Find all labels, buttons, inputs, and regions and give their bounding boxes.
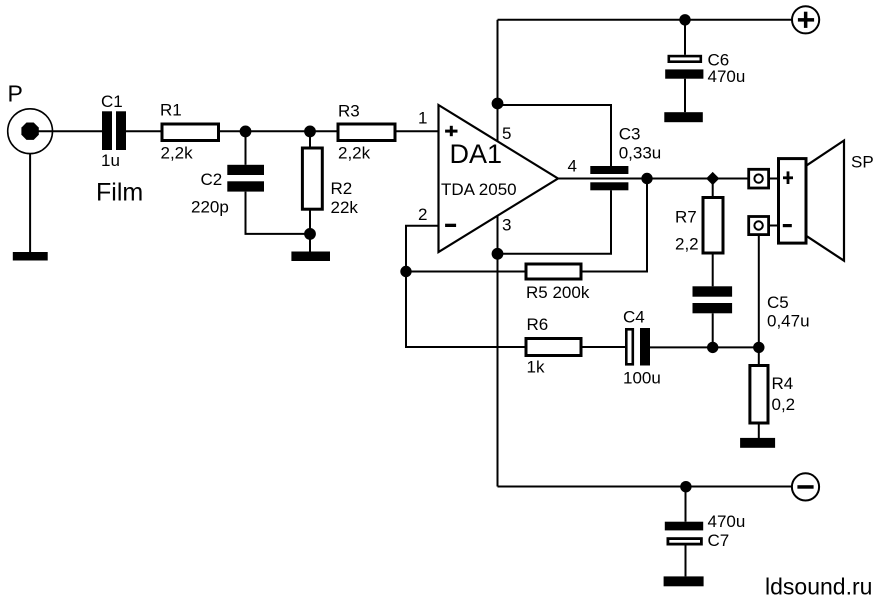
svg-text:3: 3 <box>502 216 511 235</box>
svg-text:2,2: 2,2 <box>675 235 699 254</box>
wire C3 bottom to pin 3 node <box>498 190 612 254</box>
wire pin 5 up to positive rail <box>497 20 499 141</box>
resistor R2 <box>302 148 322 209</box>
wire C2 down and right to R2 bottom node <box>246 192 311 234</box>
capacitor C6 <box>665 56 703 79</box>
svg-text:C3: C3 <box>619 125 641 144</box>
node rail / C7 <box>680 481 691 492</box>
node at R1/C2 <box>240 125 252 137</box>
wire rail down to C6 <box>684 20 686 55</box>
svg-text:R6: R6 <box>527 315 549 334</box>
svg-text:1u: 1u <box>101 151 120 170</box>
svg-text:2,2k: 2,2k <box>338 144 371 163</box>
svg-text:5: 5 <box>502 124 511 143</box>
wire output down to R5 <box>581 179 647 272</box>
wire positive rail <box>498 19 792 21</box>
wire C7 to ground <box>685 546 687 577</box>
svg-text:1: 1 <box>418 109 427 128</box>
capacitor C1 <box>102 111 126 150</box>
resistor R6 <box>526 339 581 356</box>
wire node down to C2 <box>245 131 247 165</box>
svg-text:100u: 100u <box>623 369 661 388</box>
wire P down to ground <box>29 154 31 253</box>
resistor R5 <box>526 264 581 279</box>
minus input marker <box>445 224 456 227</box>
wire negative rail <box>498 486 792 488</box>
wire R4 to ground <box>758 423 760 438</box>
ground (input) <box>13 252 48 261</box>
node C5/C4 <box>707 342 718 353</box>
wire C6 to ground <box>684 79 686 113</box>
wire R3 to pin 1 <box>395 130 439 132</box>
wire rail down to C7 <box>685 487 687 522</box>
node output <box>641 173 652 184</box>
wire pin 2 <box>406 226 439 272</box>
wire pin 3 down to negative rail <box>497 216 499 487</box>
speaker SP <box>779 141 845 261</box>
junction diamond at output <box>706 172 719 185</box>
svg-text:220p: 220p <box>191 198 229 217</box>
svg-text:R3: R3 <box>338 101 360 120</box>
wire C5 down to bottom node <box>712 313 714 347</box>
svg-text:0,33u: 0,33u <box>619 144 662 163</box>
svg-text:Film: Film <box>96 179 143 207</box>
svg-text:DA1: DA1 <box>450 139 503 169</box>
node rail / C6 <box>679 14 690 25</box>
wire minus terminal down to R4 node <box>758 235 760 348</box>
wire R6 to C4 <box>581 346 625 348</box>
svg-text:22k: 22k <box>331 198 359 217</box>
wire minus terminal to speaker <box>769 225 779 227</box>
svg-text:R4: R4 <box>772 374 794 393</box>
capacitor C4 <box>626 328 650 366</box>
svg-text:C1: C1 <box>101 92 123 111</box>
resistor R4 <box>750 366 768 424</box>
wire C4 to R4 node <box>650 346 759 348</box>
svg-text:0,2: 0,2 <box>772 395 796 414</box>
terminal plus <box>792 6 819 33</box>
wire R5 to pin2 node <box>406 271 526 273</box>
wire P to C1 <box>39 130 103 132</box>
svg-text:470u: 470u <box>708 512 746 531</box>
svg-text:470u: 470u <box>708 67 746 86</box>
node pin2/R5/R6 <box>400 266 411 277</box>
svg-text:SP: SP <box>851 153 874 172</box>
wire output pin 4 <box>558 178 749 180</box>
svg-text:R7: R7 <box>675 208 697 227</box>
ground (C6) <box>664 112 703 122</box>
wire pin5 node to C3 top <box>498 105 612 166</box>
capacitor C7 <box>665 522 703 544</box>
wire plus terminal to speaker <box>769 178 779 180</box>
capacitor C3 <box>590 166 628 190</box>
svg-text:ldsound.ru: ldsound.ru <box>765 574 872 600</box>
wire R2 down to ground <box>309 209 311 251</box>
plus input marker <box>445 126 457 136</box>
svg-text:R5 200k: R5 200k <box>526 283 590 302</box>
svg-text:2,2k: 2,2k <box>161 144 194 163</box>
svg-text:TDA 2050: TDA 2050 <box>441 180 517 199</box>
wire node down to R2 <box>309 131 311 148</box>
svg-text:R2: R2 <box>331 179 353 198</box>
svg-text:P: P <box>8 81 23 107</box>
resistor R1 <box>162 124 219 141</box>
speaker minus marker <box>783 224 792 227</box>
ground (R4) <box>740 438 775 448</box>
capacitor C5 <box>693 286 733 313</box>
svg-text:2: 2 <box>418 205 427 224</box>
wire R1 to R3 <box>219 130 339 132</box>
svg-text:0,47u: 0,47u <box>767 312 810 331</box>
node pin 3 <box>492 248 504 260</box>
connector P <box>8 109 53 154</box>
node R4 top <box>753 342 764 353</box>
svg-text:C7: C7 <box>708 531 730 550</box>
node at R1/R2 <box>304 125 316 137</box>
svg-text:C2: C2 <box>201 170 223 189</box>
wire C1 to R1 <box>126 130 162 132</box>
svg-text:4: 4 <box>568 157 577 176</box>
ground (R2/C2) <box>291 252 330 262</box>
svg-text:1k: 1k <box>527 358 545 377</box>
svg-text:C4: C4 <box>623 308 645 327</box>
ground (C7) <box>664 576 704 586</box>
wire R7 to C5 <box>712 253 714 286</box>
wire R4 node down to R4 <box>758 347 760 365</box>
svg-text:C5: C5 <box>767 293 789 312</box>
svg-text:R1: R1 <box>160 101 182 120</box>
op-amp DA1 <box>439 105 559 252</box>
capacitor C2 <box>227 165 264 192</box>
resistor R3 <box>338 124 395 141</box>
node at R2 bottom <box>304 228 316 240</box>
node pin 5 <box>492 98 504 110</box>
resistor R7 <box>703 198 723 254</box>
wire node down to R6 <box>406 272 526 348</box>
terminal minus <box>792 473 819 500</box>
speaker terminal minus <box>749 217 769 235</box>
speaker terminal plus <box>749 169 769 188</box>
wire diamond down to R7 <box>712 184 714 198</box>
speaker plus marker <box>783 171 793 184</box>
